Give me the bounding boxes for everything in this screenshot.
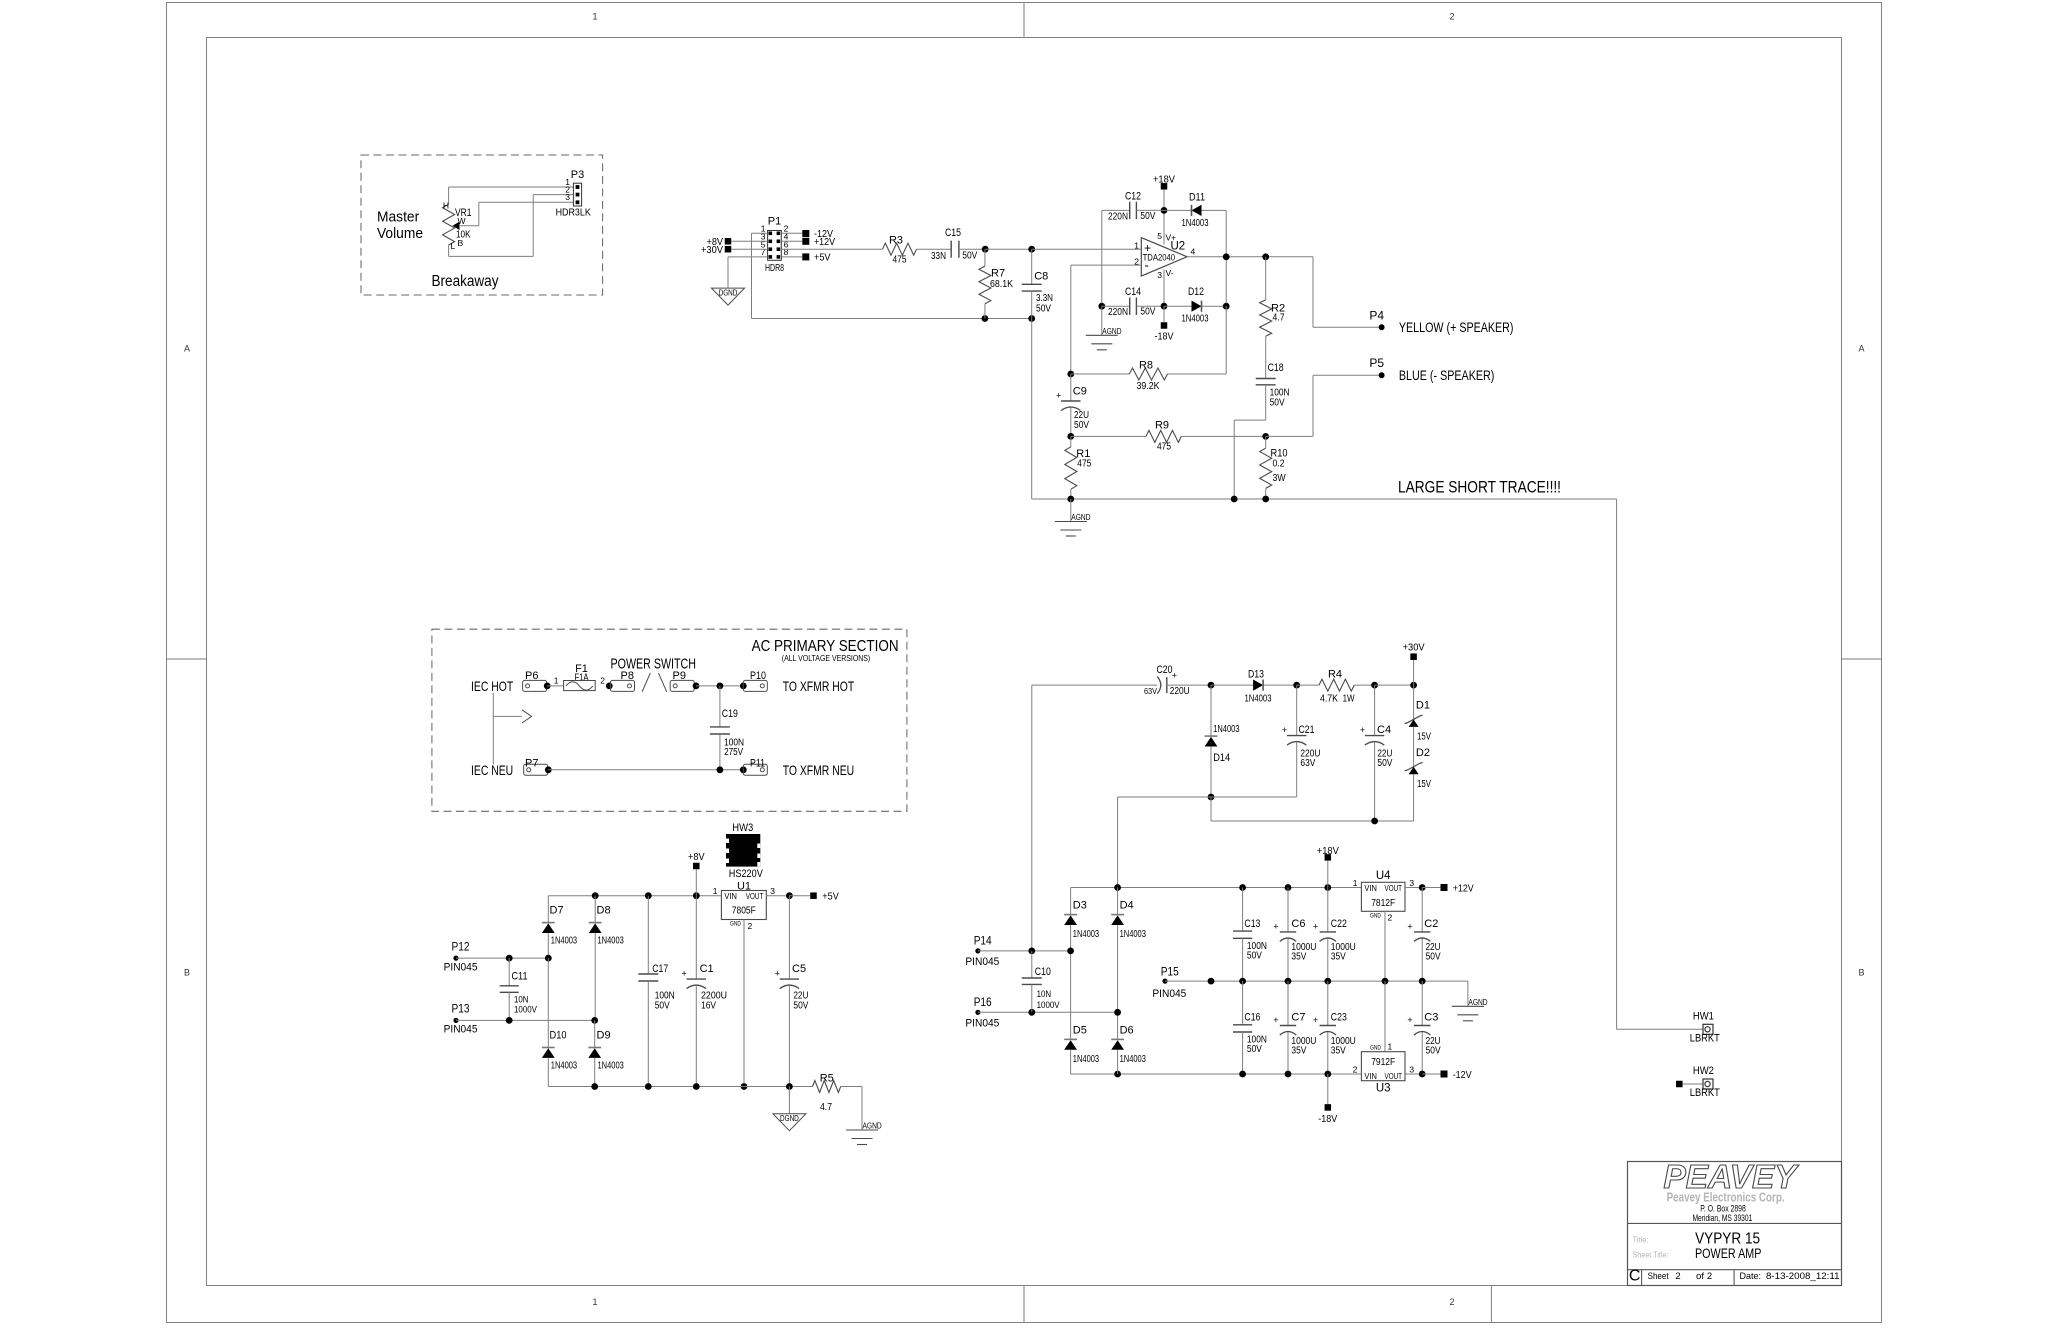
svg-text:2: 2: [1707, 1271, 1712, 1282]
svg-text:3.3N: 3.3N: [1036, 293, 1053, 304]
svg-text:3: 3: [770, 886, 775, 896]
svg-text:1N4003: 1N4003: [551, 935, 577, 946]
svg-text:1N4003: 1N4003: [1182, 218, 1209, 229]
svg-text:VYPYR 15: VYPYR 15: [1695, 1230, 1760, 1247]
svg-text:35V: 35V: [1331, 952, 1346, 963]
svg-text:Meridian, MS 39301: Meridian, MS 39301: [1692, 1213, 1752, 1224]
svg-text:AGND: AGND: [1102, 326, 1121, 336]
svg-text:C14: C14: [1125, 286, 1141, 298]
svg-text:D3: D3: [1073, 900, 1087, 912]
svg-text:PIN045: PIN045: [444, 962, 478, 974]
svg-text:IEC NEU: IEC NEU: [471, 762, 513, 778]
svg-text:PIN045: PIN045: [1152, 988, 1186, 1000]
svg-text:68.1K: 68.1K: [990, 279, 1013, 290]
svg-text:-12V: -12V: [1453, 1069, 1472, 1081]
svg-text:LARGE SHORT TRACE!!!!: LARGE SHORT TRACE!!!!: [1398, 478, 1561, 496]
svg-text:P9: P9: [673, 670, 686, 682]
svg-text:GND: GND: [730, 921, 741, 928]
svg-text:HDR8: HDR8: [765, 262, 784, 274]
svg-text:50V: 50V: [1140, 211, 1155, 222]
svg-text:+: +: [682, 969, 687, 979]
svg-text:3: 3: [1157, 270, 1162, 280]
svg-text:C11: C11: [512, 970, 528, 982]
svg-text:P13: P13: [452, 1004, 470, 1016]
svg-text:P8: P8: [621, 670, 634, 682]
svg-text:2: 2: [1449, 1297, 1454, 1307]
svg-text:(ALL VOLTAGE VERSIONS): (ALL VOLTAGE VERSIONS): [782, 654, 871, 663]
svg-text:+: +: [1282, 725, 1287, 735]
svg-text:2: 2: [1353, 1064, 1358, 1074]
svg-text:+5V: +5V: [814, 252, 831, 264]
svg-text:D13: D13: [1248, 669, 1264, 681]
svg-text:50V: 50V: [1270, 397, 1285, 408]
svg-text:1N4003: 1N4003: [598, 935, 624, 946]
svg-text:63V: 63V: [1300, 758, 1315, 769]
svg-text:YELLOW (+ SPEAKER): YELLOW (+ SPEAKER): [1399, 319, 1514, 335]
svg-text:D12: D12: [1188, 286, 1204, 298]
svg-text:4.7: 4.7: [820, 1102, 832, 1113]
svg-text:TO XFMR HOT: TO XFMR HOT: [783, 678, 855, 694]
svg-text:D5: D5: [1073, 1024, 1087, 1036]
svg-text:PEAVEY: PEAVEY: [1664, 1158, 1800, 1195]
svg-text:P16: P16: [974, 997, 992, 1009]
svg-text:Date:: Date:: [1740, 1271, 1762, 1282]
svg-text:220N: 220N: [1108, 211, 1128, 222]
svg-text:VIN: VIN: [1364, 883, 1377, 893]
svg-text:P11: P11: [750, 758, 765, 770]
svg-text:2: 2: [748, 921, 753, 931]
svg-text:7805F: 7805F: [732, 906, 756, 917]
svg-text:15V: 15V: [1417, 732, 1431, 743]
svg-text:+: +: [1407, 921, 1412, 931]
svg-text:2: 2: [1449, 12, 1454, 22]
svg-text:+: +: [1273, 1015, 1278, 1025]
svg-text:+: +: [1313, 1015, 1318, 1025]
svg-text:VOUT: VOUT: [746, 891, 764, 901]
svg-text:C2: C2: [1424, 918, 1438, 930]
svg-text:7912F: 7912F: [1371, 1057, 1395, 1068]
svg-text:1N4003: 1N4003: [1073, 1054, 1099, 1065]
svg-text:AGND: AGND: [863, 1121, 882, 1131]
svg-text:V+: V+: [1166, 233, 1177, 243]
svg-text:50V: 50V: [793, 1000, 808, 1011]
svg-text:C16: C16: [1244, 1012, 1260, 1024]
svg-text:DGND: DGND: [719, 289, 738, 298]
svg-text:C12: C12: [1125, 191, 1141, 203]
svg-text:AGND: AGND: [1071, 512, 1090, 522]
svg-text:Title:: Title:: [1633, 1235, 1649, 1245]
svg-text:B: B: [184, 968, 190, 978]
svg-text:2: 2: [1675, 1271, 1680, 1282]
svg-text:+: +: [1360, 725, 1365, 735]
svg-text:P6: P6: [525, 670, 538, 682]
svg-text:+30V: +30V: [701, 244, 723, 256]
svg-text:P1: P1: [768, 216, 781, 228]
svg-text:C18: C18: [1268, 362, 1284, 374]
svg-text:Breakaway: Breakaway: [432, 273, 499, 290]
svg-text:7812F: 7812F: [1371, 898, 1395, 909]
svg-text:AC PRIMARY SECTION: AC PRIMARY SECTION: [752, 638, 899, 655]
svg-text:DGND: DGND: [780, 1114, 799, 1123]
svg-text:4.7: 4.7: [1273, 313, 1285, 324]
svg-text:33N: 33N: [931, 251, 946, 262]
svg-text:C21: C21: [1299, 724, 1315, 736]
svg-text:50V: 50V: [1247, 1044, 1262, 1055]
svg-text:U4: U4: [1376, 870, 1391, 882]
svg-text:Sheet Title:: Sheet Title:: [1633, 1250, 1669, 1260]
svg-text:A: A: [184, 344, 190, 354]
svg-text:F1A: F1A: [575, 672, 589, 683]
svg-text:50V: 50V: [1074, 420, 1089, 431]
svg-text:C6: C6: [1291, 918, 1305, 930]
svg-text:220N: 220N: [1108, 307, 1128, 318]
svg-text:5: 5: [1157, 231, 1162, 241]
svg-text:35V: 35V: [1331, 1045, 1346, 1056]
svg-text:B: B: [458, 238, 464, 248]
svg-text:-18V: -18V: [1318, 1113, 1337, 1125]
svg-text:475: 475: [1157, 442, 1171, 453]
svg-text:+: +: [1407, 1015, 1412, 1025]
svg-text:D7: D7: [550, 905, 564, 917]
svg-text:R7: R7: [991, 267, 1005, 279]
svg-text:VIN: VIN: [1364, 1071, 1377, 1081]
svg-text:8: 8: [784, 247, 789, 257]
svg-text:1000V: 1000V: [1037, 1000, 1061, 1011]
svg-text:-18V: -18V: [1155, 331, 1174, 343]
svg-text:2: 2: [600, 676, 605, 686]
svg-text:50V: 50V: [1036, 304, 1051, 315]
svg-text:C17: C17: [652, 963, 668, 975]
svg-text:D2: D2: [1416, 747, 1430, 759]
svg-text:0.2: 0.2: [1273, 458, 1285, 469]
svg-text:GND: GND: [1370, 1044, 1381, 1051]
svg-text:275V: 275V: [724, 747, 743, 758]
svg-text:D8: D8: [597, 905, 611, 917]
svg-text:C19: C19: [722, 708, 738, 720]
svg-text:16V: 16V: [701, 1000, 716, 1011]
svg-text:+18V: +18V: [1153, 174, 1175, 186]
svg-text:39.2K: 39.2K: [1137, 381, 1160, 392]
svg-text:C8: C8: [1034, 271, 1048, 283]
svg-text:GND: GND: [1370, 912, 1381, 919]
svg-text:LBRKT: LBRKT: [1690, 1033, 1720, 1045]
svg-text:B: B: [1858, 968, 1864, 978]
svg-text:1: 1: [1353, 878, 1358, 888]
svg-text:1N4003: 1N4003: [1245, 694, 1272, 705]
svg-text:P14: P14: [974, 936, 993, 948]
svg-text:50V: 50V: [1377, 758, 1392, 769]
svg-text:P10: P10: [750, 670, 766, 682]
svg-text:1N4003: 1N4003: [1120, 1054, 1146, 1065]
svg-text:C: C: [1629, 1268, 1641, 1285]
svg-text:L: L: [451, 241, 456, 251]
svg-text:Master: Master: [377, 209, 419, 226]
svg-text:C7: C7: [1291, 1012, 1305, 1024]
svg-text:HS220V: HS220V: [729, 868, 764, 880]
svg-text:C22: C22: [1331, 918, 1347, 930]
svg-text:1000V: 1000V: [514, 1005, 538, 1016]
svg-text:D11: D11: [1189, 192, 1205, 204]
svg-text:1: 1: [592, 1297, 597, 1307]
svg-text:D6: D6: [1120, 1024, 1134, 1036]
svg-text:P4: P4: [1369, 309, 1384, 323]
svg-text:1: 1: [1134, 240, 1139, 250]
svg-text:C1: C1: [700, 963, 714, 975]
svg-text:3: 3: [565, 192, 570, 202]
svg-text:D9: D9: [597, 1030, 611, 1042]
svg-text:+30V: +30V: [1403, 641, 1425, 653]
svg-text:POWER AMP: POWER AMP: [1695, 1246, 1761, 1261]
svg-text:V-: V-: [1166, 268, 1174, 278]
svg-text:4.7K: 4.7K: [1320, 694, 1338, 705]
svg-text:50V: 50V: [1247, 950, 1262, 961]
svg-text:+: +: [1273, 921, 1278, 931]
svg-text:C4: C4: [1377, 724, 1391, 736]
svg-text:C23: C23: [1331, 1012, 1347, 1024]
svg-text:R8: R8: [1139, 360, 1153, 372]
svg-text:C20: C20: [1157, 664, 1173, 676]
svg-text:1W: 1W: [1343, 694, 1355, 705]
svg-text:+5V: +5V: [822, 891, 839, 903]
svg-text:IEC HOT: IEC HOT: [471, 678, 514, 694]
svg-text:1: 1: [713, 886, 718, 896]
svg-text:D4: D4: [1120, 900, 1134, 912]
svg-text:50V: 50V: [1426, 952, 1441, 963]
svg-text:P3: P3: [571, 169, 584, 181]
svg-text:VOUT: VOUT: [1385, 883, 1403, 893]
svg-text:U3: U3: [1376, 1083, 1391, 1095]
svg-text:1N4003: 1N4003: [551, 1060, 577, 1071]
svg-text:1N4003: 1N4003: [1120, 929, 1146, 940]
svg-text:1N4003: 1N4003: [1182, 313, 1209, 324]
svg-text:+8V: +8V: [688, 851, 705, 863]
svg-text:35V: 35V: [1291, 1045, 1306, 1056]
svg-text:C13: C13: [1244, 918, 1260, 930]
svg-text:1: 1: [592, 12, 597, 22]
svg-text:35V: 35V: [1291, 952, 1306, 963]
svg-text:H: H: [443, 201, 449, 211]
svg-text:R4: R4: [1328, 669, 1342, 681]
svg-text:D1: D1: [1416, 700, 1430, 712]
svg-text:50V: 50V: [1426, 1045, 1441, 1056]
svg-text:C5: C5: [792, 963, 806, 975]
svg-text:+: +: [1172, 671, 1177, 681]
svg-text:220U: 220U: [1170, 686, 1190, 697]
svg-text:50V: 50V: [1140, 307, 1155, 318]
svg-text:+12V: +12V: [1453, 883, 1474, 895]
svg-text:P7: P7: [525, 758, 538, 770]
svg-text:1N4003: 1N4003: [598, 1060, 624, 1071]
svg-text:TO XFMR NEU: TO XFMR NEU: [783, 762, 855, 778]
svg-text:AGND: AGND: [1468, 997, 1487, 1007]
svg-text:7: 7: [761, 247, 766, 257]
svg-text:P12: P12: [452, 942, 470, 954]
svg-text:PIN045: PIN045: [444, 1024, 478, 1036]
svg-text:10N: 10N: [1037, 989, 1052, 1000]
svg-text:HW1: HW1: [1693, 1011, 1714, 1023]
svg-text:475: 475: [893, 254, 907, 265]
svg-text:R3: R3: [889, 235, 903, 247]
svg-text:VIN: VIN: [724, 891, 737, 901]
svg-text:+: +: [1313, 921, 1318, 931]
svg-text:+: +: [775, 969, 780, 979]
svg-text:R9: R9: [1155, 420, 1169, 432]
svg-text:PIN045: PIN045: [965, 956, 999, 968]
svg-text:TDA2040: TDA2040: [1143, 252, 1176, 262]
svg-text:VOUT: VOUT: [1385, 1071, 1403, 1081]
svg-text:BLUE (- SPEAKER): BLUE (- SPEAKER): [1399, 367, 1495, 383]
svg-text:+: +: [1056, 391, 1061, 401]
svg-text:3: 3: [1409, 878, 1414, 888]
svg-text:D10: D10: [550, 1030, 567, 1042]
svg-text:P15: P15: [1161, 966, 1179, 978]
svg-text:R5: R5: [820, 1073, 834, 1085]
svg-text:63V: 63V: [1144, 686, 1157, 696]
svg-text:HDR3LK: HDR3LK: [556, 207, 591, 219]
svg-text:50V: 50V: [962, 251, 977, 262]
svg-text:50V: 50V: [655, 1000, 670, 1011]
svg-text:3W: 3W: [1273, 473, 1286, 484]
svg-text:Sheet: Sheet: [1648, 1271, 1669, 1282]
svg-text:Volume: Volume: [377, 225, 423, 242]
svg-text:D14: D14: [1213, 752, 1230, 764]
svg-text:C15: C15: [945, 227, 961, 239]
svg-text:W: W: [458, 216, 466, 226]
svg-text:of: of: [1696, 1271, 1704, 1282]
svg-text:+12V: +12V: [814, 236, 835, 248]
svg-text:1: 1: [554, 676, 559, 686]
svg-text:1: 1: [1388, 1041, 1393, 1051]
svg-text:A: A: [1858, 344, 1864, 354]
svg-text:C3: C3: [1424, 1012, 1438, 1024]
svg-text:475: 475: [1077, 459, 1091, 470]
svg-text:HW3: HW3: [732, 822, 753, 834]
svg-text:P5: P5: [1369, 356, 1384, 370]
svg-text:15V: 15V: [1417, 779, 1431, 790]
svg-text:+18V: +18V: [1317, 845, 1339, 857]
svg-text:2: 2: [1388, 912, 1393, 922]
svg-text:HW2: HW2: [1693, 1065, 1714, 1077]
svg-text:PIN045: PIN045: [965, 1017, 999, 1029]
svg-text:LBRKT: LBRKT: [1690, 1087, 1720, 1099]
svg-text:8-13-2008_12:11: 8-13-2008_12:11: [1766, 1271, 1840, 1281]
svg-text:C10: C10: [1035, 966, 1051, 978]
svg-text:1N4003: 1N4003: [1213, 724, 1239, 735]
svg-text:C9: C9: [1073, 385, 1087, 397]
svg-text:1N4003: 1N4003: [1073, 929, 1099, 940]
svg-text:4: 4: [1191, 247, 1196, 257]
svg-text:3: 3: [1409, 1064, 1414, 1074]
